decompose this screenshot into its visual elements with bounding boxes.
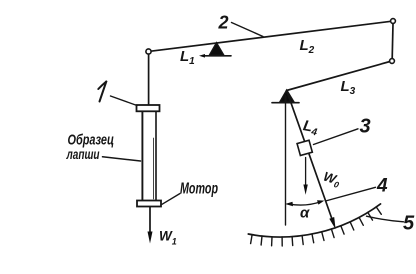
wire link L3 from lower-right joint to pendulum fulcrum [287,62,391,91]
svg-text:L3: L3 [341,78,356,97]
angle alpha dimension arc with arrowheads [285,200,324,206]
specimen bottom clamp plate (motor) [137,201,161,207]
scale tick marks [251,207,382,246]
force arrow W1 below specimen [148,207,153,244]
leader line for label 3 [314,129,359,145]
weight bob 3 (rotated square) [297,140,312,155]
svg-text:W1: W1 [159,229,177,247]
svg-text:2: 2 [218,13,229,33]
svg-text:3: 3 [360,116,371,138]
leader line for label 2 [232,23,264,37]
wire link 2 beam from left joint to top-right joint [151,21,391,51]
label 1 [98,82,106,102]
specimen tube body [142,111,156,200]
svg-text:L4: L4 [301,117,319,138]
wire right vertical link between joints [391,24,394,59]
fulcrum pivot triangle right (pendulum support) [272,90,299,103]
fulcrum pivot triangle left [199,43,231,58]
svg-text:L1: L1 [180,48,195,67]
force arrow W0 from bob [303,158,307,195]
svg-text:4: 4 [376,176,388,197]
leader line for label 5 [367,216,404,222]
svg-text:L2: L2 [300,37,315,56]
pendulum vertical reference line [285,96,287,225]
node lower-right joint circle [390,59,395,64]
node left joint circle [146,49,151,54]
node top-right joint circle [391,19,396,24]
leader line for specimen text [103,157,141,161]
svg-text:Мотор: Мотор [180,181,218,198]
leader line for label 4 [326,187,376,201]
svg-text:5: 5 [403,213,415,235]
svg-text:лапши: лапши [66,146,100,162]
leader line for label 1 [111,96,138,106]
pendulum rod 4 with arrow tip [287,91,336,229]
specimen top clamp plate [137,105,160,111]
wire left hanger from joint down to top clamp [148,54,150,105]
svg-text:W0: W0 [321,169,343,191]
graduated scale arc 5 [248,204,380,237]
svg-text:α: α [300,205,310,222]
leader line for motor text [162,194,180,205]
